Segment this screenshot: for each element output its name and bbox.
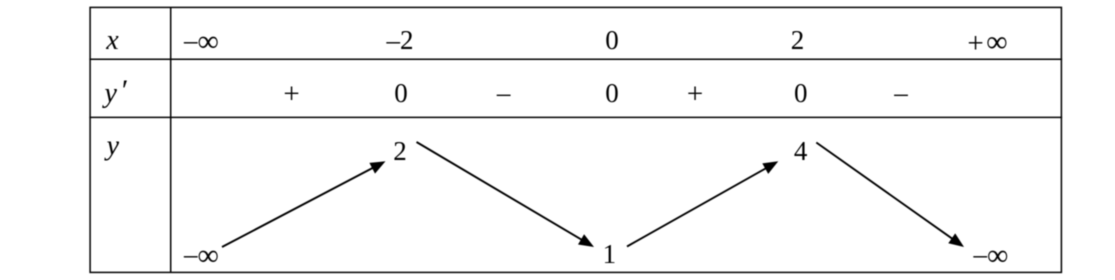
svg-text:2: 2	[791, 25, 805, 55]
svg-text:–: –	[893, 78, 908, 108]
svg-text:x: x	[105, 25, 119, 56]
svg-text:+: +	[687, 78, 703, 110]
arrow up 3	[627, 166, 770, 246]
arrow up 1	[222, 166, 377, 247]
svg-text:2: 2	[393, 136, 407, 166]
row divider y'/y	[89, 116, 1062, 118]
svg-text:–∞: –∞	[183, 25, 219, 58]
svg-text:–∞: –∞	[183, 239, 219, 272]
svg-text:–: –	[496, 78, 511, 108]
column divider labels/content	[170, 7, 172, 272]
svg-text:0: 0	[394, 78, 408, 108]
svg-text:+: +	[283, 78, 299, 110]
svg-text:4: 4	[794, 136, 808, 166]
svg-text:0: 0	[605, 78, 619, 108]
svg-text:0: 0	[794, 78, 808, 108]
svg-text:y′: y′	[102, 74, 127, 109]
arrow down 4	[816, 143, 956, 242]
row divider x/y'	[89, 58, 1062, 60]
svg-text:0: 0	[605, 25, 619, 55]
svg-text:1: 1	[603, 239, 617, 269]
svg-text:–2: –2	[386, 25, 414, 55]
svg-text:+∞: +∞	[967, 25, 1007, 59]
svg-text:y: y	[104, 131, 120, 162]
arrow down 2	[417, 142, 586, 242]
svg-text:–∞: –∞	[973, 239, 1009, 272]
